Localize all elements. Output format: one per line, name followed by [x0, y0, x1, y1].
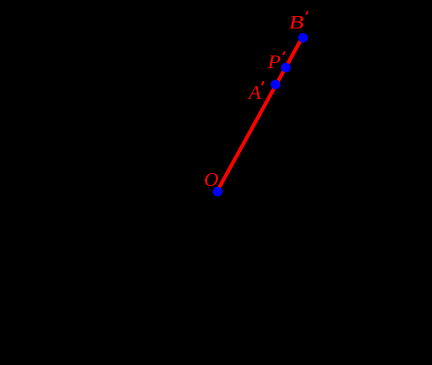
label P' — [267, 52, 285, 73]
svg-text:P: P — [267, 52, 281, 72]
point O — [213, 187, 223, 197]
point P' — [281, 63, 291, 73]
segment OB' — [217, 38, 302, 192]
svg-text:A: A — [247, 82, 262, 104]
point A' — [271, 80, 281, 90]
svg-text:B: B — [289, 11, 304, 33]
label A' — [247, 81, 264, 104]
label B' — [289, 11, 308, 33]
point B' — [298, 33, 308, 43]
svg-text:O: O — [204, 169, 218, 191]
